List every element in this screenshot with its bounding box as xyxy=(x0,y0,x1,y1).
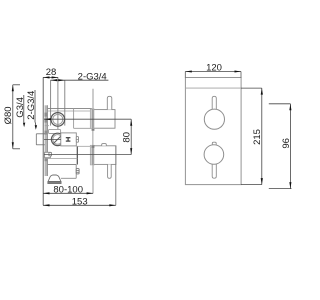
handle 1 body xyxy=(93,110,116,129)
knob 2 xyxy=(204,145,224,165)
inlet bracket lines xyxy=(35,134,37,145)
small arrow on top centerline at wall bracket xyxy=(44,118,51,120)
inner top line xyxy=(185,87,241,89)
svg-text:120: 120 xyxy=(206,63,222,74)
lower inner vertical (dark) xyxy=(76,146,78,165)
knob 2 lever stem xyxy=(212,163,216,178)
lower block right tab xyxy=(76,169,79,174)
left long extension line xyxy=(42,77,44,205)
svg-text:G3/4: G3/4 xyxy=(15,97,26,118)
dome foot xyxy=(48,175,61,182)
knob 2 nub xyxy=(212,142,216,145)
centerline bottom row xyxy=(44,154,131,156)
handle 2 flange xyxy=(90,145,94,165)
handle 2 top nub xyxy=(102,144,107,146)
svg-text:2-G3/4: 2-G3/4 xyxy=(26,91,37,120)
handle 1 stem xyxy=(107,96,112,109)
svg-text:80: 80 xyxy=(121,132,132,143)
wall thick grey bar xyxy=(92,109,95,131)
cartridge right tab xyxy=(76,137,78,143)
line from cartridge to wall xyxy=(76,145,92,147)
left inlet stub xyxy=(45,152,51,157)
centerline mid row xyxy=(44,138,61,140)
handle front face line extension xyxy=(115,146,117,206)
knob 1 xyxy=(204,109,224,129)
upper body block xyxy=(47,108,91,110)
cartridge box xyxy=(61,133,77,146)
grey back mounting bracket xyxy=(45,105,48,176)
dark base bar xyxy=(48,182,62,184)
top pipe verticals xyxy=(50,80,52,125)
lower body horizontal line xyxy=(45,158,78,160)
knob 1 stem xyxy=(212,96,216,110)
svg-text:80-100: 80-100 xyxy=(53,185,83,196)
inner vertical pipe line xyxy=(73,109,75,129)
front plate xyxy=(185,78,241,185)
handle 1 flange (light grey behind wall) xyxy=(90,109,94,128)
handle 2 lever slot (down) xyxy=(108,164,112,178)
lower block xyxy=(47,164,76,166)
handle 2 body xyxy=(93,146,116,165)
small box between ports xyxy=(49,129,61,133)
wall line (thin above and below) xyxy=(92,89,94,109)
cartridge I-beam symbol xyxy=(66,137,71,139)
svg-text:2-G3/4: 2-G3/4 xyxy=(78,72,107,83)
check valve circle with diagonal xyxy=(51,133,63,145)
centerline top row xyxy=(44,118,131,120)
svg-text:28: 28 xyxy=(46,67,57,78)
top port circle xyxy=(51,113,65,127)
